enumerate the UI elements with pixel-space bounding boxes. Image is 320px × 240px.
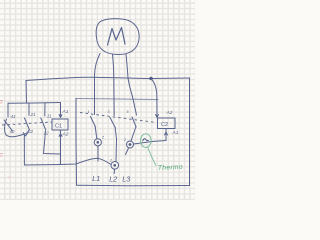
wire motor leg 3 bbox=[126, 54, 137, 115]
wire contact 12 down to A2 node bbox=[44, 131, 61, 154]
contact 21/22 arm bbox=[25, 118, 30, 130]
svg-text:C2: C2 bbox=[161, 122, 168, 128]
svg-text:1: 1 bbox=[88, 110, 90, 114]
svg-text:12: 12 bbox=[44, 131, 50, 136]
svg-text:Thermo: Thermo bbox=[158, 164, 183, 172]
wire L1 stub below bbox=[97, 146, 99, 161]
svg-text:A1: A1 bbox=[172, 130, 179, 136]
terminal circle L2 bbox=[111, 162, 119, 170]
red stray mark bbox=[8, 176, 12, 179]
wire drop to contact 41 bbox=[7, 103, 9, 117]
arrowhead A1 C1 bbox=[59, 115, 62, 118]
svg-text:L2: L2 bbox=[109, 175, 117, 184]
motor letter M bbox=[108, 28, 126, 46]
wire enclosure top edge bbox=[76, 99, 158, 100]
wire C2 to thermal to L3 bbox=[134, 141, 167, 145]
main contact 1 arm bbox=[91, 117, 96, 128]
wire drop to contact 21 bbox=[28, 103, 30, 116]
svg-text:2: 2 bbox=[123, 138, 126, 142]
wire L2 stub below bbox=[113, 169, 115, 173]
wire motor leg 2 bbox=[113, 55, 115, 116]
wire main contact 2 bottom bbox=[115, 128, 116, 162]
stop contact S1 arm (41/42) bbox=[4, 120, 13, 131]
svg-text:21: 21 bbox=[30, 112, 37, 117]
junction arrowhead at stop contact output bbox=[23, 133, 27, 137]
arrowhead A1 C2 bbox=[165, 132, 168, 135]
wire control bus (top horizontal) bbox=[26, 77, 190, 80]
terminal circle L1 bbox=[94, 139, 101, 146]
wire main contact 1 bottom bbox=[95, 127, 97, 139]
arrowhead A2 C2 bbox=[156, 115, 159, 118]
thermo pointer arrow bbox=[148, 148, 156, 166]
svg-text:2: 2 bbox=[101, 136, 104, 140]
svg-text:L1: L1 bbox=[92, 174, 100, 183]
svg-text:11: 11 bbox=[47, 114, 52, 119]
arrowhead A2 C1 bbox=[59, 134, 62, 137]
main contact 3 arm bbox=[132, 117, 136, 127]
wire motor leg 1 bbox=[95, 54, 101, 115]
terminal circle L3 bbox=[127, 141, 134, 148]
wire C2 feed drop bbox=[151, 79, 157, 118]
terminal L1 center dot bbox=[97, 141, 100, 144]
svg-text:A1: A1 bbox=[62, 109, 69, 115]
wire A2 below C1 bbox=[60, 130, 62, 165]
junction dot on bus bbox=[149, 77, 152, 80]
wire L3 stub below bbox=[126, 148, 129, 155]
svg-text:3: 3 bbox=[108, 110, 110, 114]
svg-text:L3: L3 bbox=[122, 175, 130, 184]
svg-text:2: 2 bbox=[109, 159, 112, 163]
thermal element bump on wire bbox=[143, 139, 149, 141]
main contact 2 arm bbox=[110, 118, 116, 129]
svg-text:41: 41 bbox=[11, 114, 17, 119]
thermal overload element circle bbox=[141, 134, 152, 148]
graph paper background bbox=[0, 0, 195, 200]
wire enclosure bottom bbox=[77, 184, 190, 187]
wire control feeder horizontal bbox=[8, 102, 61, 105]
wire contact 22 to down wire bbox=[24, 130, 29, 134]
motor M1 circle bbox=[96, 19, 139, 55]
stop contact S1 body blob bbox=[5, 119, 25, 137]
svg-text:A2: A2 bbox=[166, 110, 173, 116]
coil C1 box bbox=[52, 119, 68, 130]
wire drop to contact 11 bbox=[44, 103, 46, 116]
coil C2 box bbox=[158, 118, 176, 129]
gang dash line left block to C1 bbox=[2, 122, 52, 125]
wire bus left drop bbox=[25, 81, 28, 104]
wire A1 below C2 bbox=[165, 129, 167, 141]
terminal L2 center dot bbox=[114, 164, 117, 167]
contact 11/12 arm bbox=[41, 118, 46, 130]
terminal L3 center dot bbox=[129, 143, 132, 146]
svg-text:42: 42 bbox=[10, 129, 16, 134]
gang dash line main contacts to C2 bbox=[80, 113, 156, 123]
svg-text:A2: A2 bbox=[62, 132, 69, 138]
wire A1 drop into C1 bbox=[60, 103, 62, 118]
wire main contact 3 bottom bbox=[131, 127, 136, 141]
wire right edge drop bbox=[189, 78, 191, 186]
svg-text:5: 5 bbox=[127, 110, 129, 114]
wire left block descending bbox=[23, 134, 25, 165]
red margin mark bottom bbox=[0, 154, 3, 157]
svg-text:C1: C1 bbox=[55, 124, 62, 130]
red margin mark top bbox=[0, 101, 3, 104]
wire bottom run to L2 bbox=[24, 158, 111, 165]
wire enclosure left edge bbox=[75, 99, 78, 186]
svg-text:22: 22 bbox=[27, 129, 34, 134]
